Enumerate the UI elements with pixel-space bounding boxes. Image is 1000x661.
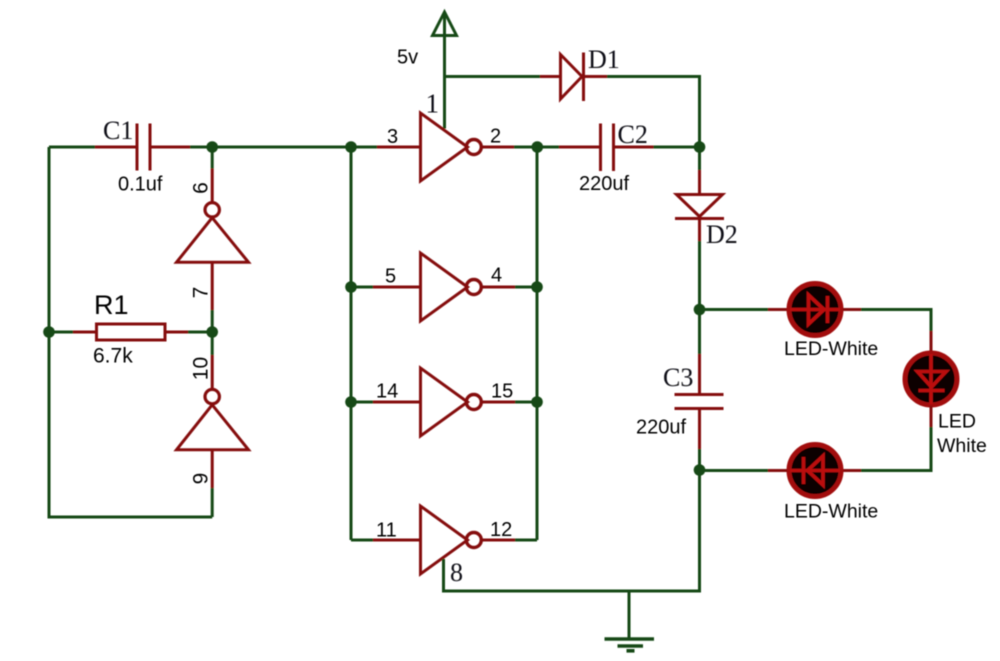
- wire bottom run: [444, 470, 700, 591]
- wire D1 to right corner: [607, 77, 700, 148]
- pin 6 lead: [211, 169, 214, 203]
- svg-text:11: 11: [376, 520, 397, 542]
- capacitor C1: [95, 124, 190, 171]
- LED3 cathode lead right: [843, 469, 861, 472]
- wire pin2 to C2: [514, 146, 559, 149]
- LED1 anode lead: [768, 308, 787, 311]
- svg-text:10: 10: [190, 357, 213, 380]
- node A junction: [206, 141, 218, 153]
- inverter U1A: [177, 218, 249, 263]
- svg-text:5: 5: [385, 266, 396, 288]
- pin 11 lead: [373, 539, 420, 542]
- wire node L to LED3: [700, 469, 769, 472]
- svg-text:5v: 5v: [397, 47, 418, 69]
- wire middle right rail: [536, 147, 539, 540]
- inverter U1D: [421, 253, 468, 321]
- svg-text:220uf: 220uf: [579, 173, 629, 195]
- wire node A down green: [211, 147, 214, 169]
- inverter U1D bubble: [466, 280, 481, 295]
- LED D4 symbol: [918, 354, 947, 404]
- inverter U1C: [421, 113, 468, 181]
- row2: wire rail to pin5: [351, 286, 373, 289]
- wire middle left rail: [350, 147, 353, 540]
- wire pin12 to right rail: [515, 539, 537, 542]
- svg-text:LED: LED: [938, 411, 976, 433]
- wire 5v rail to D1: [445, 75, 541, 78]
- pin 9 lead: [211, 450, 214, 488]
- LED1 cathode lead: [843, 308, 861, 311]
- svg-text:LED-White: LED-White: [784, 338, 878, 360]
- svg-text:0.1uf: 0.1uf: [118, 174, 163, 196]
- wire pin7 to node C: [211, 310, 214, 355]
- wire R1 to node C: [188, 331, 212, 334]
- svg-text:6.7k: 6.7k: [93, 345, 133, 368]
- inverter U1E bubble: [466, 395, 481, 410]
- capacitor C3: [675, 354, 724, 449]
- svg-text:6: 6: [190, 182, 213, 194]
- wire LED1 to corner: [861, 310, 931, 332]
- wire left rail: [49, 147, 212, 517]
- svg-text:8: 8: [450, 558, 463, 587]
- wire pin9 green segment: [211, 488, 214, 517]
- wire LED2 to corner: [861, 427, 931, 471]
- LED D3 symbol: [790, 295, 840, 324]
- pin 10 lead: [211, 355, 214, 389]
- svg-text:14: 14: [376, 381, 398, 403]
- wire C2 to node F: [654, 146, 700, 149]
- pin 3 lead: [377, 146, 420, 149]
- svg-text:D2: D2: [706, 220, 738, 249]
- inverter U1B: [177, 405, 249, 450]
- wire top-left corner to C1: [49, 146, 95, 149]
- node J junction: [531, 396, 543, 408]
- wire C3 to node L: [698, 449, 701, 470]
- capacitor C2: [559, 124, 654, 172]
- svg-text:D1: D1: [588, 45, 620, 74]
- D2 anode lead: [698, 170, 701, 193]
- power symbol 5v: [433, 12, 457, 129]
- ground: [605, 591, 655, 651]
- LED2 cathode lead: [930, 406, 933, 427]
- pin 4 lead: [482, 286, 515, 289]
- inverter U1C bubble: [466, 140, 481, 155]
- wire D2 to node K: [698, 241, 701, 354]
- pin 5 lead: [373, 286, 420, 289]
- node H junction: [531, 281, 543, 293]
- node G junction: [345, 281, 357, 293]
- pin 7 lead: [211, 262, 214, 310]
- LED D3 body: [789, 284, 841, 336]
- svg-text:R1: R1: [94, 290, 129, 320]
- svg-text:15: 15: [491, 381, 513, 403]
- wire node F down: [698, 147, 701, 170]
- svg-text:LED-White: LED-White: [784, 501, 878, 523]
- svg-text:9: 9: [190, 473, 213, 485]
- row3: wire rail to pin14: [351, 401, 373, 404]
- node F junction: [694, 141, 706, 153]
- wire pin15 to right rail: [515, 401, 537, 404]
- svg-text:C2: C2: [618, 120, 648, 149]
- diode D1: [561, 53, 608, 102]
- svg-text:220uf: 220uf: [636, 417, 686, 439]
- inverter U1F bubble: [466, 533, 481, 548]
- node K junction: [694, 304, 706, 316]
- inverter U1F: [421, 506, 468, 574]
- node D junction (left rail R1): [43, 326, 55, 338]
- svg-text:12: 12: [490, 519, 512, 541]
- wire left rail to R1: [49, 331, 73, 334]
- row4: wire rail corner to pin11: [351, 539, 373, 542]
- node B junction: [345, 141, 357, 153]
- svg-text:4: 4: [491, 265, 502, 287]
- resistor R1: [73, 324, 188, 340]
- inverter U1A bubble: [205, 203, 219, 217]
- pin 12 lead: [482, 539, 515, 542]
- wire pin4 to right rail: [515, 286, 537, 289]
- LED D5 body: [789, 445, 841, 497]
- svg-text:1: 1: [426, 89, 440, 119]
- LED D5 symbol: [790, 456, 840, 485]
- pin 2 lead: [482, 146, 514, 149]
- wire D1 anode lead: [540, 75, 560, 78]
- svg-text:7: 7: [190, 287, 213, 299]
- wire node K to LED1: [700, 308, 769, 311]
- pin 15 lead: [482, 401, 515, 404]
- node C junction: [206, 326, 218, 338]
- LED D4 body: [905, 353, 957, 405]
- svg-text:C1: C1: [103, 116, 133, 145]
- diode D2: [675, 195, 724, 242]
- inverter U1B bubble: [205, 389, 219, 403]
- svg-text:C3: C3: [663, 363, 693, 392]
- LED2 anode lead: [930, 331, 933, 352]
- LED3 anode lead: [768, 469, 787, 472]
- inverter U1E: [421, 368, 468, 436]
- node E junction: [532, 141, 544, 153]
- node L junction: [694, 464, 706, 476]
- node I junction: [345, 396, 357, 408]
- svg-text:2: 2: [490, 126, 501, 148]
- wire C1 to node A: [190, 146, 377, 149]
- pin 14 lead: [373, 401, 420, 404]
- svg-text:3: 3: [387, 126, 398, 148]
- svg-text:White: White: [937, 435, 987, 457]
